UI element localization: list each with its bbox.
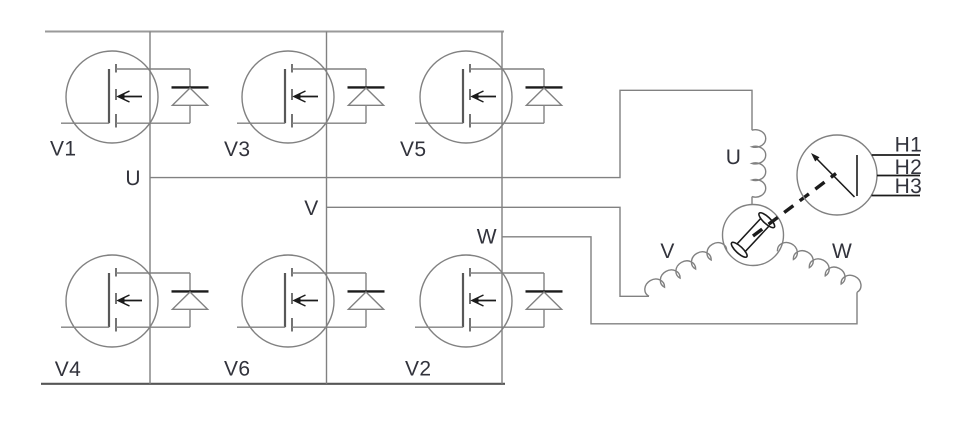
winding V xyxy=(641,239,727,297)
wire phase leg 2 bus xyxy=(326,32,328,384)
wire H1 output xyxy=(872,154,920,156)
diode of V1 xyxy=(172,69,209,123)
svg-text:V: V xyxy=(304,197,318,220)
wire phase leg 1 bus xyxy=(149,32,151,384)
diode of V3 xyxy=(348,69,385,123)
diode of V4 xyxy=(172,273,209,327)
diode of V6 xyxy=(348,273,385,327)
rotor circle xyxy=(723,205,784,266)
wire phase V to motor xyxy=(327,207,650,296)
wire bottom DC rail xyxy=(41,383,505,385)
svg-text:V3: V3 xyxy=(224,138,251,161)
svg-text:V4: V4 xyxy=(55,358,81,381)
wire top DC rail xyxy=(45,31,504,33)
wire H2 output xyxy=(877,175,920,177)
rotor magnet xyxy=(729,211,776,260)
wire H3 output xyxy=(872,195,921,197)
transistor V3 xyxy=(237,51,366,143)
transistor V6 xyxy=(237,255,366,347)
svg-text:H1: H1 xyxy=(895,134,923,157)
transistor V2 xyxy=(415,255,544,347)
wire phase leg 3 bus xyxy=(501,32,503,384)
svg-text:V6: V6 xyxy=(224,358,251,381)
wire phase U to motor xyxy=(150,90,752,177)
svg-text:V: V xyxy=(660,240,674,263)
diode of V5 xyxy=(526,69,563,123)
winding W xyxy=(776,239,864,293)
svg-text:H3: H3 xyxy=(895,175,923,198)
svg-text:W: W xyxy=(832,240,852,263)
winding U xyxy=(752,130,766,205)
hall sensor needle arrow xyxy=(811,153,855,197)
svg-text:W: W xyxy=(477,226,497,249)
svg-text:U: U xyxy=(726,146,742,169)
transistor V4 xyxy=(61,255,190,347)
svg-text:V5: V5 xyxy=(400,138,427,161)
wire phase W to motor xyxy=(502,237,857,324)
svg-text:U: U xyxy=(125,167,141,190)
transistor V1 xyxy=(61,51,190,143)
svg-text:V1: V1 xyxy=(50,137,77,160)
transistor V5 xyxy=(415,51,544,143)
diode of V2 xyxy=(526,273,563,327)
hall sensor U1 circle xyxy=(797,135,877,215)
hall sensor reference mark xyxy=(856,155,858,196)
rotor shaft dashed link to hall sensor xyxy=(753,174,836,237)
svg-text:V2: V2 xyxy=(405,357,432,380)
